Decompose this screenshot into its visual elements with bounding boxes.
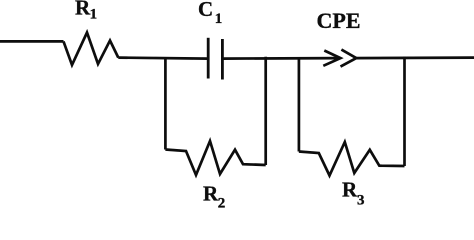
wire node B down (loop2 left leg) [298,58,301,152]
svg-text:R: R [203,181,219,205]
svg-text:2: 2 [218,195,226,210]
capacitor C1 left plate [207,38,210,79]
wire node A down (loop1 left leg) [164,57,167,149]
wire C1 to CPE [222,57,340,60]
wire loop2 right leg up to node C [403,57,406,167]
resistor R2 [165,141,265,175]
resistor R1 [64,33,119,66]
wire CPE to right edge [356,56,474,59]
wire loop1 right leg up to node B [264,57,267,165]
svg-text:CPE: CPE [317,8,361,33]
label R2 [203,181,225,211]
wire R1 to node A [118,58,208,59]
label CPE [317,8,361,33]
label C1 [198,0,222,27]
svg-text:1: 1 [215,11,223,27]
svg-text:1: 1 [90,7,98,23]
wire left lead [0,40,64,43]
capacitor C1 right plate [221,39,224,80]
label R3 [342,177,365,208]
svg-text:R: R [342,177,358,201]
resistor R3 [299,142,405,176]
CPE chevron 1 [323,51,340,66]
svg-text:C: C [198,0,213,21]
CPE chevron 2 [341,50,357,67]
label R1 [75,0,97,23]
svg-text:3: 3 [357,193,365,209]
svg-text:R: R [75,0,91,20]
